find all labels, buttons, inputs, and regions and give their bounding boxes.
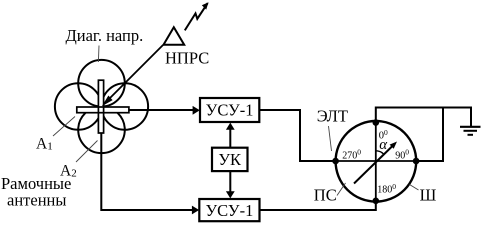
svg-text:антенны: антенны <box>7 190 66 209</box>
arrowhead into USU-1 bottom <box>192 206 199 215</box>
svg-text:ЭЛТ: ЭЛТ <box>317 106 348 125</box>
crossing detail of frames <box>97 107 99 114</box>
wire USU-1 top to ELT left <box>259 110 335 161</box>
wire diagonal direction line to NPRS <box>102 45 164 107</box>
wire ELT top dot to earth <box>376 108 471 127</box>
wire USU-1 bottom to ELT bottom <box>260 201 376 210</box>
leader line Diag. napr. <box>97 46 100 63</box>
CRT screen circle ELT <box>336 121 417 202</box>
arrowhead into USU-1 top <box>193 106 200 115</box>
svg-text:Диаг. напр.: Диаг. напр. <box>66 26 144 45</box>
leader line PS <box>337 183 346 196</box>
wire UK up to USU-1 top <box>229 125 231 148</box>
svg-text:ПС: ПС <box>314 185 337 204</box>
node dot bottom <box>373 198 380 205</box>
svg-text:Ш: Ш <box>420 185 437 204</box>
svg-text:УК: УК <box>218 150 242 169</box>
leader line A2 <box>76 141 98 163</box>
antenna A2 vertical frame <box>98 80 103 133</box>
vertical diameter wire <box>375 123 377 201</box>
antenna A1 horizontal frame <box>77 107 129 113</box>
arrowhead down into USU-1 bottom <box>226 191 235 198</box>
ground symbol <box>460 126 481 128</box>
leader line ELT <box>329 126 332 151</box>
bearing trace arrowhead <box>390 142 397 149</box>
wire UK down to USU-1 bottom <box>229 171 231 196</box>
loop antenna circle right <box>102 83 149 130</box>
block UK <box>212 148 248 171</box>
transmitter triangle NPRS <box>164 27 185 45</box>
horizontal diameter wire <box>336 160 417 162</box>
node dot left <box>332 158 339 165</box>
lightning arrowhead <box>202 2 209 9</box>
svg-text:УСУ-1: УСУ-1 <box>206 101 254 120</box>
lightning zigzag arrow <box>185 3 208 30</box>
wire antenna A1 to USU-1 top <box>129 109 198 111</box>
leader line Sh <box>410 185 419 191</box>
svg-text:УСУ-1: УСУ-1 <box>205 201 253 220</box>
arrowhead up into USU-1 top <box>226 123 235 130</box>
alpha angle arc <box>376 151 384 154</box>
node dot top <box>373 119 380 126</box>
block USU-1 top <box>200 98 259 122</box>
leader line A1 <box>53 117 75 137</box>
loop antenna circle left <box>55 83 102 130</box>
wire antenna A2 to USU-1 bottom <box>101 133 197 210</box>
bearing trace line <box>354 144 395 184</box>
loop antenna circle bottom <box>78 107 125 154</box>
node dot right <box>413 158 420 165</box>
arrowhead on diagonal pointing to antenna center <box>102 96 113 107</box>
block USU-1 bottom <box>199 199 259 221</box>
svg-text:НПРС: НПРС <box>165 49 209 68</box>
loop antenna circle top <box>78 60 125 107</box>
wire ELT right dot to earth net <box>416 108 443 162</box>
